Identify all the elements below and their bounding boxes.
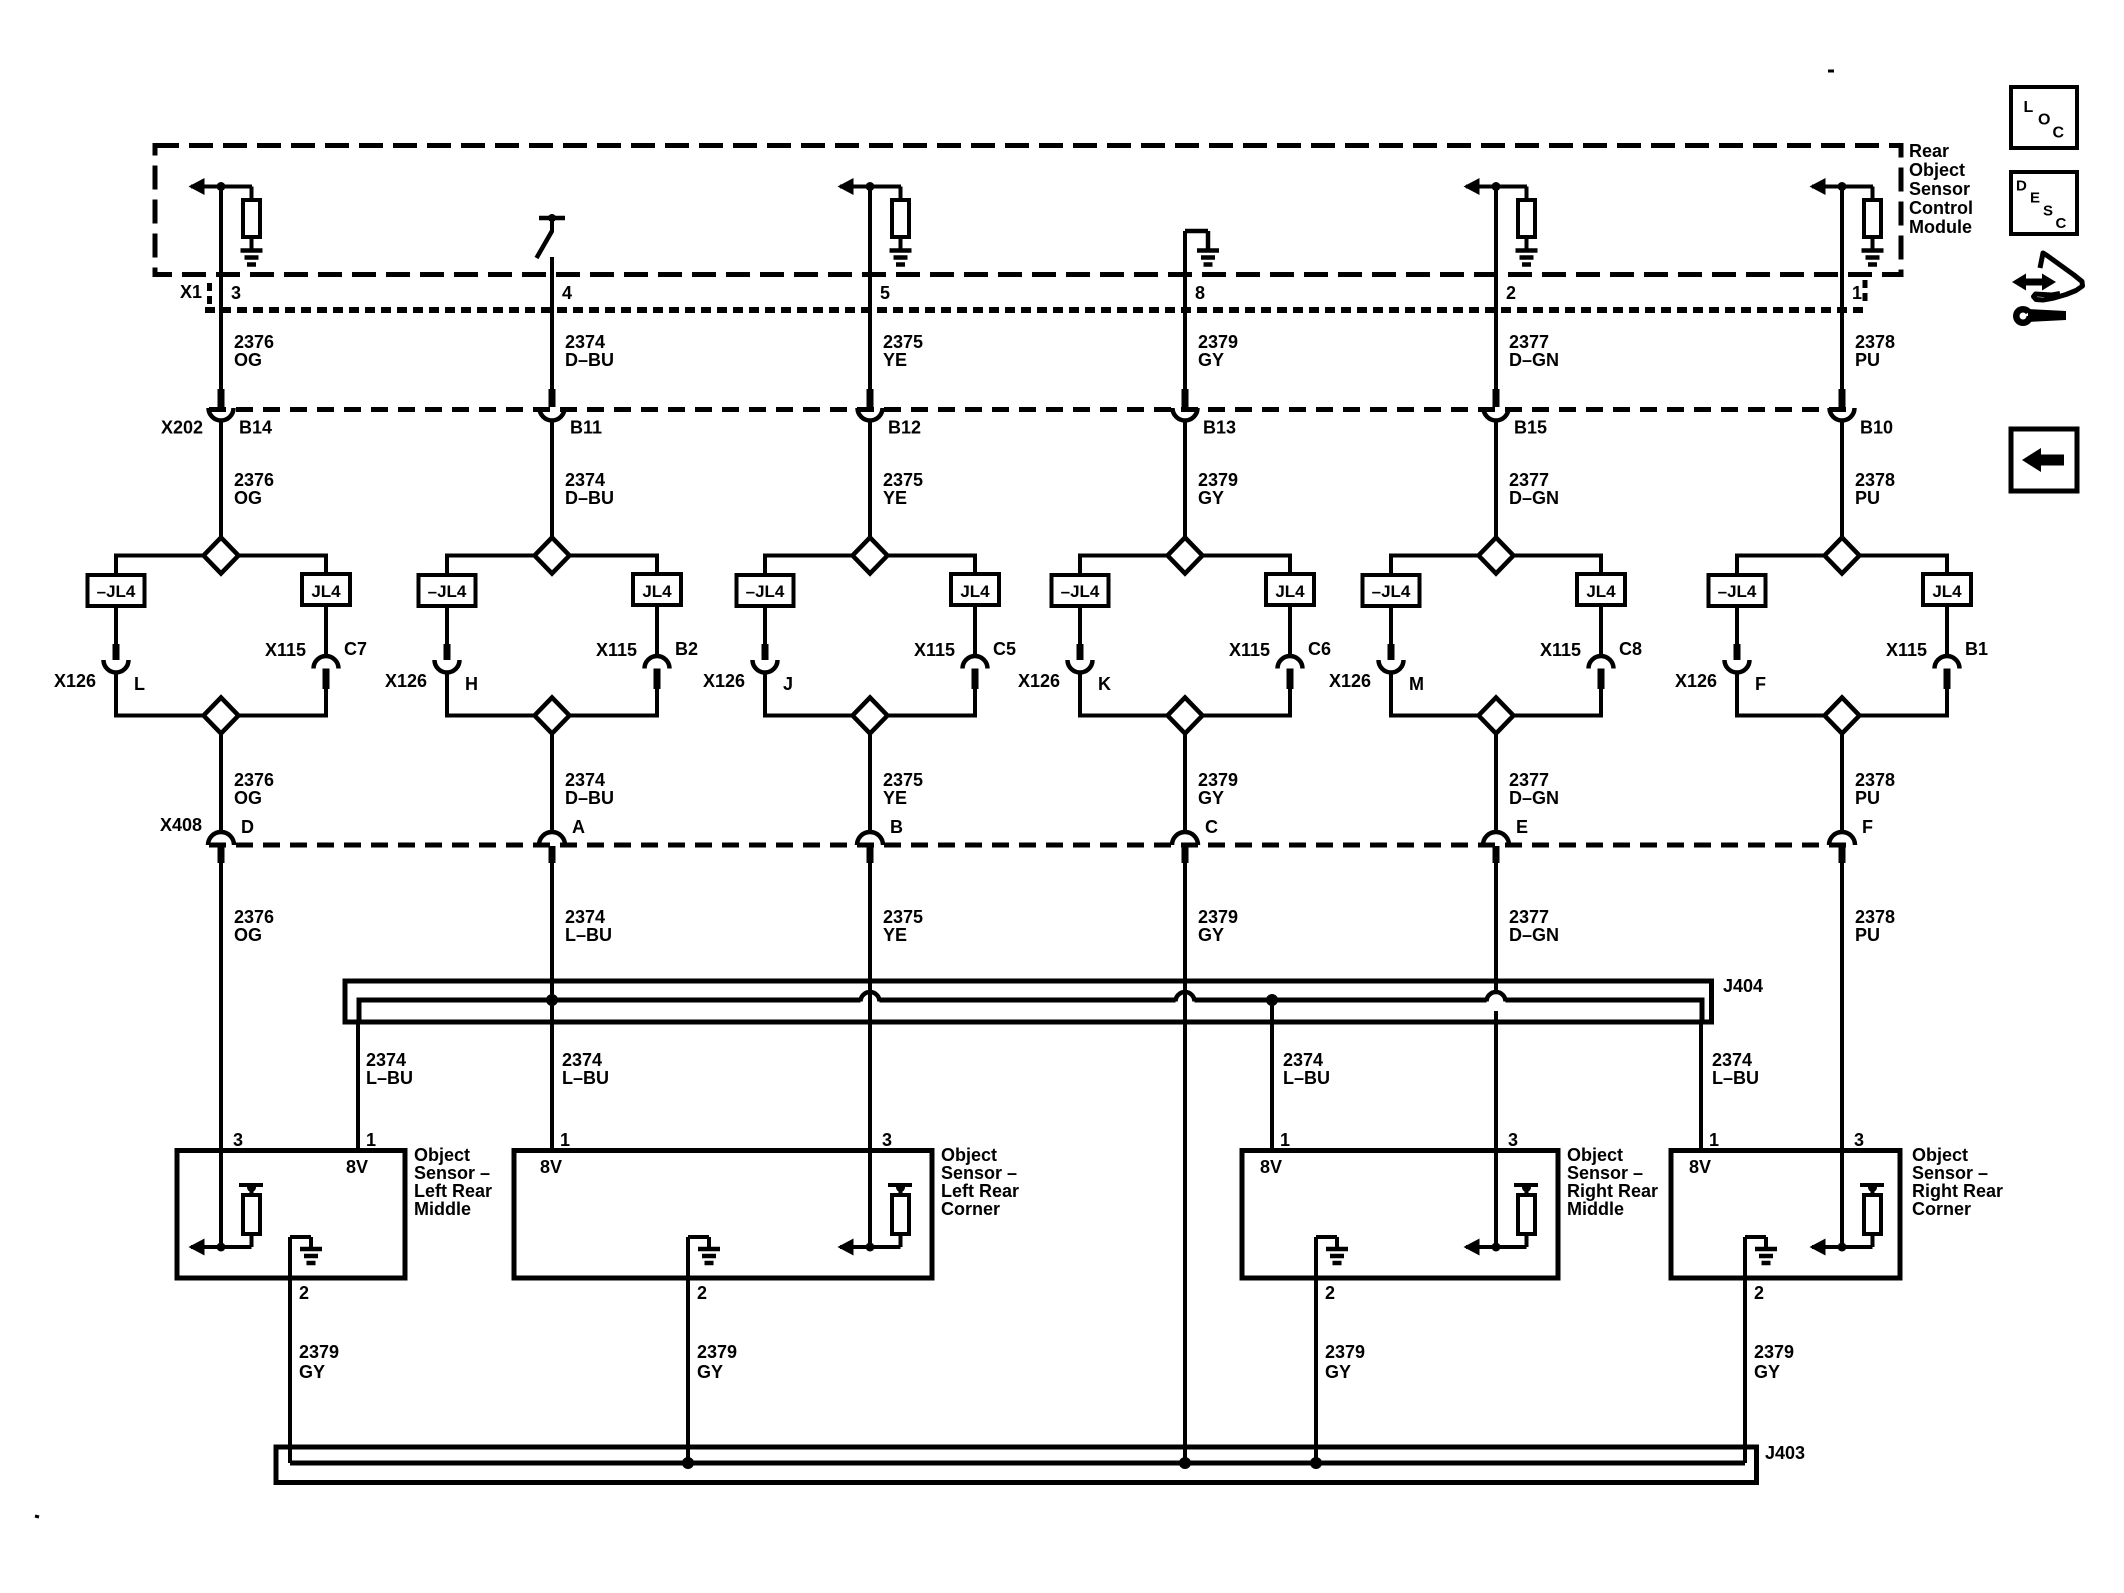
X126 pin J label — [783, 674, 793, 694]
svg-text:2374: 2374 — [1712, 1050, 1752, 1070]
wire X126 F to lower splice — [1735, 673, 1739, 718]
connector X115 label (column 1) — [265, 640, 306, 660]
svg-text:X126: X126 — [703, 671, 745, 691]
svg-text:3: 3 — [1854, 1130, 1864, 1150]
connector X202 terminal B11 — [540, 408, 565, 421]
Object Sensor - Left Rear Corner pin 1 label — [560, 1130, 570, 1150]
connector X408 terminal E — [1483, 832, 1509, 845]
Object Sensor - Left Rear Middle pin 2 label — [299, 1283, 309, 1303]
X408 pin D label — [241, 817, 254, 837]
wire X115 C7 to lower splice — [323, 669, 330, 718]
wire label 2379 GY (Object Sensor - Left Rear Corner) — [697, 1342, 737, 1382]
wire label 2376 OG (X202 to splice) — [234, 470, 274, 508]
svg-text:C7: C7 — [344, 639, 367, 659]
harness routing icon: wrench — [2013, 303, 2066, 326]
svg-text:Left Rear: Left Rear — [941, 1181, 1019, 1201]
wire 2379 GY Object Sensor - Left Rear Middle pin 2 to J403 — [288, 1278, 292, 1463]
svg-text:X126: X126 — [385, 671, 427, 691]
connector X1 label — [180, 282, 202, 302]
wire 2374 L-BU J404 to Left Rear Middle pin 1 — [358, 998, 359, 1152]
Object Sensor - Left Rear Corner internal: ground symbol — [688, 1237, 720, 1278]
svg-text:JL4: JL4 — [1932, 582, 1962, 601]
wire label 2379 GY (splice to X408) — [1198, 770, 1238, 808]
wire label 2377 D–GN (X202 to splice) — [1509, 470, 1559, 508]
Object Sensor - Left Rear Corner internal: resistor — [888, 1183, 912, 1247]
J404 junction dot column 2 — [546, 994, 558, 1006]
svg-text:2375: 2375 — [883, 770, 923, 790]
wire label 2374 L-BU (J404 feed at x=1712) — [1712, 1050, 1759, 1088]
X202 pin B15 label — [1514, 418, 1547, 438]
svg-text:Right Rear: Right Rear — [1912, 1181, 2003, 1201]
svg-text:8V: 8V — [1689, 1157, 1711, 1177]
svg-text:2379: 2379 — [1754, 1342, 1794, 1362]
svg-text:–JL4: –JL4 — [1372, 582, 1411, 601]
wire label 2374 L-BU (J404 feed at x=562) — [562, 1050, 609, 1088]
X408 pin C label — [1205, 817, 1218, 837]
J404 label — [1723, 976, 1763, 996]
svg-text:X115: X115 — [1540, 640, 1581, 660]
svg-text:2: 2 — [299, 1283, 309, 1303]
connector X1 left boundary mark — [207, 283, 212, 307]
X202 pin B10 label — [1860, 418, 1893, 438]
svg-text:4: 4 — [562, 283, 572, 303]
svg-text:J403: J403 — [1765, 1443, 1805, 1463]
wire upper-right branch (column 2) — [570, 554, 658, 577]
svg-text:2376: 2376 — [234, 470, 274, 490]
module internal: terminating resistor (pin 5) — [892, 187, 909, 250]
Object Sensor - Left Rear Corner 8V label — [540, 1157, 562, 1177]
svg-text:GY: GY — [1198, 488, 1224, 508]
svg-text:Control: Control — [1909, 198, 1973, 218]
module internal: switch contact pin 4 — [537, 214, 566, 258]
svg-text:X115: X115 — [1886, 640, 1927, 660]
connector X115 terminal B1 — [1935, 656, 1960, 669]
wire label 2378 PU (X1 to X202) — [1855, 332, 1895, 370]
X202 pin B12 label — [888, 418, 921, 438]
X126 pin M label — [1409, 674, 1424, 694]
svg-text:8V: 8V — [1260, 1157, 1282, 1177]
svg-text:2374: 2374 — [1283, 1050, 1323, 1070]
J403 junction dot (X408 C wire) — [1179, 1457, 1191, 1469]
svg-text:C8: C8 — [1619, 639, 1642, 659]
Object Sensor - Right Rear Middle internal: resistor — [1514, 1183, 1538, 1247]
svg-text:Sensor –: Sensor – — [414, 1163, 490, 1183]
wire label 2379 GY (Object Sensor - Right Rear Middle) — [1325, 1342, 1365, 1382]
svg-text:2374: 2374 — [565, 907, 605, 927]
module internal: ground symbol (pin 8) — [1197, 251, 1219, 265]
Object Sensor - Right Rear Middle description label — [1567, 1145, 1658, 1219]
splice upper (column 2) — [535, 538, 570, 574]
Object Sensor - Right Rear Middle internal: signal arrow — [1464, 1239, 1527, 1256]
wire 2379 GY Object Sensor - Right Rear Corner pin 2 to J403 — [1743, 1278, 1747, 1463]
wire X115 C6 to lower splice — [1287, 669, 1294, 718]
X408 terminal stub C — [1182, 846, 1189, 863]
svg-text:2377: 2377 — [1509, 770, 1549, 790]
wire X126 L to lower splice — [114, 673, 118, 718]
wire label 2377 D–GN (below X408) — [1509, 907, 1559, 945]
wire -JL4 to X126 H — [445, 606, 449, 660]
svg-text:2375: 2375 — [883, 470, 923, 490]
wire lower-right branch (column 6) — [1860, 714, 1948, 718]
svg-text:Corner: Corner — [1912, 1199, 1971, 1219]
Object Sensor - Right Rear Corner 8V label — [1689, 1157, 1711, 1177]
svg-text:8: 8 — [1195, 283, 1205, 303]
svg-text:–JL4: –JL4 — [1718, 582, 1757, 601]
Object Sensor - Left Rear Middle box — [177, 1151, 405, 1279]
wire X115 C5 to lower splice — [972, 669, 979, 718]
wire circuit 2377 D–GN from module pin 2 through X1 to X202 — [1494, 187, 1498, 408]
connector X408 line (dashed) — [209, 843, 1855, 848]
stray mark bottom left — [35, 1516, 39, 1517]
wire circuit 2374 D–BU from X202 B11 to splice — [550, 421, 554, 539]
wire label 2376 OG (below X408) — [234, 907, 274, 945]
svg-text:–JL4: –JL4 — [97, 582, 136, 601]
svg-text:2379: 2379 — [1198, 470, 1238, 490]
svg-text:B13: B13 — [1203, 418, 1236, 438]
Object Sensor - Right Rear Corner internal: ground symbol — [1745, 1237, 1777, 1278]
svg-text:D: D — [2016, 178, 2027, 195]
wire circuit 2376 OG from module pin 3 through X1 to X202 — [219, 187, 223, 408]
svg-text:Object: Object — [941, 1145, 997, 1165]
svg-text:2374: 2374 — [366, 1050, 406, 1070]
svg-text:1: 1 — [1852, 283, 1862, 303]
DESC icon box — [2011, 172, 2077, 234]
X202 pin B13 label — [1203, 418, 1236, 438]
wire circuit 2374 D–BU from splice to X408 A — [550, 734, 554, 834]
wire circuit 2377 D–GN from X202 B15 to splice — [1494, 421, 1498, 539]
wire circuit 2374 D–BU from module pin 4 through X1 to X202 — [550, 257, 554, 407]
Object Sensor - Left Rear Corner description label — [941, 1145, 1019, 1219]
splice lower (column 6) — [1825, 698, 1860, 734]
svg-text:Corner: Corner — [941, 1199, 1000, 1219]
module internal: terminating resistor (pin 3) — [243, 187, 260, 250]
wire label 2374 L-BU (J404 feed at x=1283) — [1283, 1050, 1330, 1088]
Object Sensor - Right Rear Corner pin 3 label — [1854, 1130, 1864, 1150]
wire upper-left branch (column 6) — [1737, 554, 1825, 577]
svg-text:C: C — [2053, 125, 2065, 142]
Object Sensor - Right Rear Middle box — [1242, 1151, 1558, 1279]
wire label 2377 D–GN (X1 to X202) — [1509, 332, 1559, 370]
svg-text:2378: 2378 — [1855, 470, 1895, 490]
X408 terminal stub F — [1839, 846, 1846, 863]
svg-text:X1: X1 — [180, 282, 202, 302]
X126 pin F label — [1755, 674, 1766, 694]
connector X115 terminal C8 — [1589, 656, 1614, 669]
wire 2378 PU X408 F to Object Sensor Right Rear Corner pin 3 — [1840, 862, 1844, 1148]
svg-text:2376: 2376 — [234, 770, 274, 790]
wire label 2379 GY (X1 to X202) — [1198, 332, 1238, 370]
X202 pin B11 label — [570, 418, 602, 438]
X408 pin B label — [890, 817, 903, 837]
svg-text:OG: OG — [234, 488, 262, 508]
svg-text:Right Rear: Right Rear — [1567, 1181, 1658, 1201]
option box -JL4 (column 2) — [419, 575, 476, 606]
svg-text:L–BU: L–BU — [1283, 1068, 1330, 1088]
svg-text:D–GN: D–GN — [1509, 788, 1559, 808]
option box JL4 (column 1) — [302, 574, 350, 605]
svg-text:2374: 2374 — [565, 332, 605, 352]
Object Sensor - Left Rear Corner box — [514, 1151, 932, 1279]
wire lower-right branch (column 4) — [1203, 714, 1291, 718]
X408 pin E label — [1516, 817, 1528, 837]
svg-text:2: 2 — [1506, 283, 1516, 303]
svg-text:L–BU: L–BU — [565, 925, 612, 945]
wire circuit 2376 OG from splice to X408 D — [219, 734, 223, 834]
wire X115 B2 to lower splice — [654, 669, 661, 718]
connector X115 terminal C5 — [963, 656, 988, 669]
wire 2376 OG X408 D to Object Sensor Left Rear Middle pin 3 — [219, 862, 223, 1149]
module internal: ground symbol (pin 3) — [241, 251, 263, 265]
wire JL4 to X115 C6 — [1288, 605, 1292, 657]
svg-text:2: 2 — [1325, 1283, 1335, 1303]
svg-text:L–BU: L–BU — [562, 1068, 609, 1088]
wire X126 H to lower splice — [445, 673, 449, 718]
Object Sensor - Right Rear Middle 8V label — [1260, 1157, 1282, 1177]
option box JL4 (column 6) — [1923, 574, 1971, 605]
splice lower (column 1) — [204, 698, 239, 734]
connector X202 terminal B12 — [858, 408, 883, 421]
option box JL4 (column 2) — [633, 574, 681, 605]
wire label 2375 YE (X1 to X202) — [883, 332, 923, 370]
svg-text:F: F — [1862, 817, 1873, 837]
svg-text:X126: X126 — [1018, 671, 1060, 691]
svg-text:3: 3 — [882, 1130, 892, 1150]
option box -JL4 (column 4) — [1052, 575, 1109, 606]
svg-text:Object: Object — [1912, 1145, 1968, 1165]
svg-text:2377: 2377 — [1509, 332, 1549, 352]
svg-text:X202: X202 — [161, 418, 203, 438]
wire 2374 L-BU X408 A to junction J404 and sensor pin 1 — [550, 862, 554, 1149]
J404 crossover hop at column 3 — [861, 992, 880, 1002]
svg-text:–JL4: –JL4 — [746, 582, 785, 601]
Object Sensor - Left Rear Middle description label — [414, 1145, 492, 1219]
wire upper-left branch (column 1) — [116, 554, 204, 577]
svg-text:C6: C6 — [1308, 639, 1331, 659]
svg-text:B15: B15 — [1514, 418, 1547, 438]
wire -JL4 to X126 J — [763, 606, 767, 660]
svg-text:M: M — [1409, 674, 1424, 694]
svg-text:E: E — [1516, 817, 1528, 837]
svg-text:Left Rear: Left Rear — [414, 1181, 492, 1201]
J403 junction dot (Right Rear Middle pin 2) — [1310, 1457, 1322, 1469]
svg-text:1: 1 — [1709, 1130, 1719, 1150]
svg-text:PU: PU — [1855, 925, 1880, 945]
module internal: terminating resistor (pin 2) — [1518, 187, 1535, 250]
svg-text:H: H — [465, 674, 478, 694]
Object Sensor - Right Rear Corner box — [1671, 1151, 1900, 1279]
X408 terminal stub A — [549, 846, 556, 863]
svg-text:2375: 2375 — [883, 332, 923, 352]
wire circuit 2377 D–GN from splice to X408 E — [1494, 734, 1498, 834]
svg-text:D–GN: D–GN — [1509, 925, 1559, 945]
splice upper (column 6) — [1825, 538, 1860, 574]
svg-text:C: C — [2056, 215, 2067, 232]
svg-text:2378: 2378 — [1855, 907, 1895, 927]
wire label 2379 GY (Object Sensor - Left Rear Middle) — [299, 1342, 339, 1382]
option box -JL4 (column 5) — [1363, 575, 1420, 606]
svg-text:E: E — [2030, 190, 2040, 207]
option box JL4 (column 5) — [1577, 574, 1625, 605]
wire 2375 YE X408 B to Object Sensor Left Rear Corner pin 3 — [868, 862, 872, 1151]
module internal: signal arrow pin 1 — [1810, 178, 1874, 195]
X115 pin C5 label — [993, 639, 1016, 659]
wire 2379 GY Object Sensor - Left Rear Corner pin 2 to J403 — [686, 1278, 690, 1463]
connector X126 terminal J — [753, 660, 778, 673]
Object Sensor - Left Rear Corner internal: pin 3 wire to arrow — [868, 1151, 872, 1248]
wire lower-left branch (column 1) — [116, 714, 204, 718]
J404 crossover hop at column 5 — [1487, 992, 1506, 1002]
connector X202 label — [161, 418, 203, 438]
connector X126 label (column 2) — [385, 671, 427, 691]
wire lower-left branch (column 2) — [447, 714, 535, 718]
svg-text:OG: OG — [234, 788, 262, 808]
Object Sensor - Right Rear Middle pin 2 label — [1325, 1283, 1335, 1303]
module internal: ground symbol (pin 5) — [890, 251, 912, 265]
junction bus J404 outline — [345, 981, 1712, 1022]
harness routing icon: double arrow — [2012, 274, 2056, 291]
wire lower-right branch (column 3) — [888, 714, 976, 718]
wire label 2377 D–GN (splice to X408) — [1509, 770, 1559, 808]
wire JL4 to X115 C7 — [324, 605, 328, 657]
connector X115 label (column 6) — [1886, 640, 1927, 660]
svg-text:8V: 8V — [346, 1157, 368, 1177]
wire 2374 L-BU J404 to Right Rear Corner pin 1 — [1701, 998, 1702, 1151]
connector X115 terminal C6 — [1278, 656, 1303, 669]
Object Sensor - Left Rear Corner pin 3 label — [882, 1130, 892, 1150]
svg-text:OG: OG — [234, 925, 262, 945]
module internal: signal arrow pin 3 — [189, 178, 253, 195]
wire label 2375 YE (X202 to splice) — [883, 470, 923, 508]
module internal: ground connection pin 8 — [1185, 231, 1208, 250]
svg-text:JL4: JL4 — [960, 582, 990, 601]
connector X126 label (column 5) — [1329, 671, 1371, 691]
splice upper (column 4) — [1168, 538, 1203, 574]
X126 pin K label — [1098, 674, 1111, 694]
svg-text:Object: Object — [1567, 1145, 1623, 1165]
svg-text:B12: B12 — [888, 418, 921, 438]
wire label 2374 D–BU (splice to X408) — [565, 770, 614, 808]
Object Sensor - Right Rear Corner pin 1 label — [1709, 1130, 1719, 1150]
Object Sensor - Right Rear Middle pin 1 label — [1280, 1130, 1290, 1150]
wire label 2376 OG (splice to X408) — [234, 770, 274, 808]
wire X115 B1 to lower splice — [1944, 669, 1951, 718]
svg-text:2379: 2379 — [1198, 770, 1238, 790]
wire label 2374 D–BU (X202 to splice) — [565, 470, 614, 508]
svg-text:GY: GY — [1198, 788, 1224, 808]
svg-text:2: 2 — [1754, 1283, 1764, 1303]
svg-text:3: 3 — [231, 283, 241, 303]
wire upper-right branch (column 3) — [888, 554, 976, 577]
option box -JL4 (column 3) — [737, 575, 794, 606]
X1 pin 1 label — [1852, 283, 1862, 303]
svg-text:1: 1 — [560, 1130, 570, 1150]
X115 pin C8 label — [1619, 639, 1642, 659]
wire circuit 2375 YE from module pin 5 through X1 to X202 — [868, 187, 872, 408]
svg-text:YE: YE — [883, 925, 907, 945]
svg-text:2379: 2379 — [697, 1342, 737, 1362]
svg-text:X115: X115 — [1229, 640, 1270, 660]
connector X408 label — [160, 815, 202, 835]
svg-text:D–GN: D–GN — [1509, 488, 1559, 508]
svg-text:D–BU: D–BU — [565, 350, 614, 370]
svg-text:D–BU: D–BU — [565, 488, 614, 508]
X1 pin 4 label — [562, 283, 572, 303]
X115 pin C7 label — [344, 639, 367, 659]
svg-text:X115: X115 — [596, 640, 637, 660]
svg-text:2378: 2378 — [1855, 332, 1895, 352]
connector X126 terminal F — [1725, 660, 1750, 673]
X408 pin A label — [572, 817, 585, 837]
Rear Object Sensor Control Module outline (dashed box) — [155, 146, 1901, 275]
Object Sensor - Left Rear Middle internal: pin 3 wire to arrow — [219, 1151, 223, 1248]
X1 pin 5 label — [880, 283, 890, 303]
wire upper-left branch (column 3) — [765, 554, 853, 577]
svg-text:JL4: JL4 — [1586, 582, 1616, 601]
Object Sensor - Right Rear Middle pin 3 label — [1508, 1130, 1518, 1150]
connector X115 label (column 2) — [596, 640, 637, 660]
connector X115 label (column 5) — [1540, 640, 1581, 660]
svg-text:2376: 2376 — [234, 332, 274, 352]
option box JL4 (column 3) — [951, 574, 999, 605]
connector X115 label (column 3) — [914, 640, 955, 660]
J404 crossover hop at column 4 — [1176, 992, 1195, 1002]
wire label 2379 GY (Object Sensor - Right Rear Corner) — [1754, 1342, 1794, 1382]
svg-text:D: D — [241, 817, 254, 837]
svg-text:Sensor –: Sensor – — [1567, 1163, 1643, 1183]
svg-text:B2: B2 — [675, 639, 698, 659]
X115 pin C6 label — [1308, 639, 1331, 659]
J403 internal wire 2379 GY — [290, 1461, 1745, 1466]
connector X202 terminal B10 — [1830, 408, 1855, 421]
svg-text:5: 5 — [880, 283, 890, 303]
svg-text:X126: X126 — [54, 671, 96, 691]
wire 2379 GY Object Sensor - Right Rear Middle pin 2 to J403 — [1314, 1278, 1318, 1463]
Object Sensor - Left Rear Corner internal: signal arrow — [838, 1239, 901, 1256]
wire X126 J to lower splice — [763, 673, 767, 718]
connector X126 terminal M — [1379, 660, 1404, 673]
svg-text:D–GN: D–GN — [1509, 350, 1559, 370]
wire label 2374 L–BU (below X408) — [565, 907, 612, 945]
connector X408 terminal A — [539, 832, 565, 845]
Object Sensor - Left Rear Middle pin 1 label — [366, 1130, 376, 1150]
connector X202 terminal B13 — [1173, 408, 1198, 421]
wire -JL4 to X126 L — [114, 606, 118, 660]
splice lower (column 5) — [1479, 698, 1514, 734]
svg-text:2379: 2379 — [299, 1342, 339, 1362]
connector X408 terminal B — [857, 832, 883, 845]
Object Sensor - Right Rear Corner internal: pin 3 wire to arrow — [1840, 1151, 1844, 1248]
svg-text:3: 3 — [233, 1130, 243, 1150]
svg-text:Middle: Middle — [1567, 1199, 1624, 1219]
wire 2374 L-BU J404 branch to Right Rear Middle pin 1 — [1270, 1000, 1274, 1148]
svg-text:O: O — [2038, 112, 2050, 129]
X1 pin 8 label — [1195, 283, 1205, 303]
wire JL4 to X115 C5 — [973, 605, 977, 657]
connector X126 terminal L — [104, 660, 129, 673]
svg-text:Module: Module — [1909, 217, 1972, 237]
svg-text:Object: Object — [414, 1145, 470, 1165]
svg-text:8V: 8V — [540, 1157, 562, 1177]
svg-text:L: L — [134, 674, 145, 694]
Object Sensor - Left Rear Middle internal: resistor — [239, 1183, 263, 1247]
svg-text:X408: X408 — [160, 815, 202, 835]
wire circuit 2375 YE from X202 B12 to splice — [868, 421, 872, 539]
wire label 2378 PU (below X408) — [1855, 907, 1895, 945]
svg-text:2377: 2377 — [1509, 907, 1549, 927]
J403 label — [1765, 1443, 1805, 1463]
wire lower-right branch (column 5) — [1514, 714, 1602, 718]
wire label 2375 YE (below X408) — [883, 907, 923, 945]
